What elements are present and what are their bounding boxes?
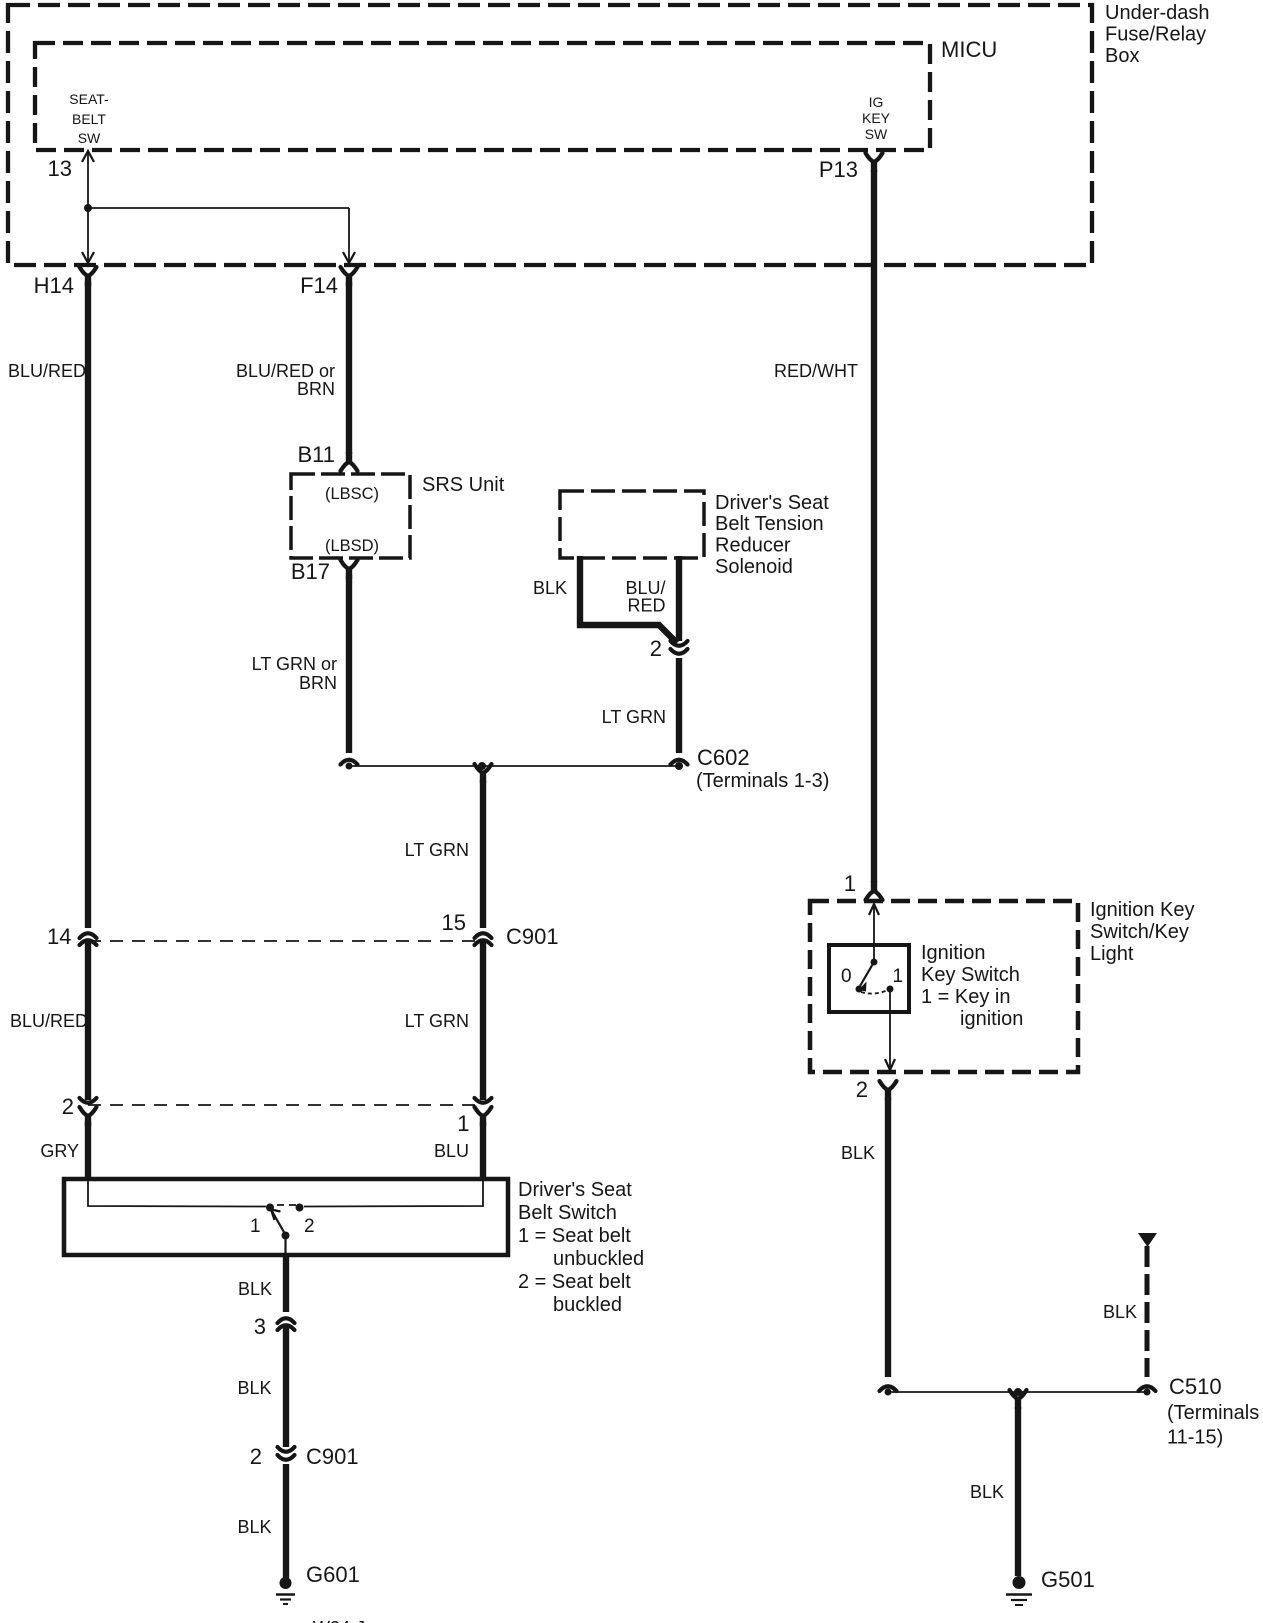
svg-text:2: 2 (856, 1077, 868, 1102)
svg-text:Light: Light (1090, 943, 1134, 965)
svg-text:(Terminals: (Terminals (1167, 1402, 1259, 1424)
svg-text:GRY: GRY (40, 1141, 79, 1161)
svg-text:H14: H14 (34, 273, 74, 298)
svg-text:SW: SW (865, 126, 888, 142)
svg-text:15: 15 (442, 910, 466, 935)
svg-text:(Terminals 1-3): (Terminals 1-3) (696, 770, 829, 792)
svg-text:LT GRN: LT GRN (405, 840, 469, 860)
svg-text:2: 2 (250, 1444, 262, 1469)
svg-text:BRN: BRN (297, 379, 335, 399)
svg-text:(LBSC): (LBSC) (325, 485, 379, 503)
svg-text:C510: C510 (1169, 1374, 1222, 1399)
svg-text:1: 1 (893, 966, 904, 987)
svg-text:Fuse/Relay: Fuse/Relay (1105, 24, 1206, 46)
svg-text:B17: B17 (291, 559, 330, 584)
svg-text:Key Switch: Key Switch (921, 964, 1020, 986)
svg-text:Driver's Seat: Driver's Seat (518, 1179, 632, 1201)
svg-text:G501: G501 (1041, 1567, 1095, 1592)
svg-text:RED: RED (627, 596, 665, 616)
svg-text:14: 14 (47, 924, 71, 949)
svg-text:G601: G601 (306, 1562, 360, 1587)
svg-text:2: 2 (304, 1216, 315, 1237)
svg-text:Driver's Seat: Driver's Seat (715, 492, 829, 514)
svg-text:2 = Seat belt: 2 = Seat belt (518, 1271, 631, 1293)
svg-text:P13: P13 (819, 157, 858, 182)
svg-text:IG: IG (869, 94, 884, 110)
svg-text:SEAT-: SEAT- (69, 91, 109, 107)
svg-text:BELT: BELT (72, 111, 106, 127)
svg-text:1: 1 (457, 1111, 469, 1136)
svg-text:B11: B11 (297, 442, 335, 467)
svg-text:BLU/RED: BLU/RED (8, 361, 86, 381)
svg-text:11-15): 11-15) (1167, 1427, 1223, 1449)
svg-text:unbuckled: unbuckled (553, 1248, 644, 1270)
svg-text:ignition: ignition (960, 1008, 1023, 1030)
svg-text:BLK: BLK (237, 1517, 271, 1537)
svg-text:SW: SW (78, 130, 101, 146)
svg-text:Switch/Key: Switch/Key (1090, 921, 1189, 943)
svg-text:BLU/RED: BLU/RED (10, 1011, 88, 1031)
svg-text:BLK: BLK (533, 578, 567, 598)
svg-text:Box: Box (1105, 45, 1139, 67)
svg-text:BLU/RED or: BLU/RED or (236, 361, 335, 381)
svg-text:3: 3 (254, 1314, 266, 1339)
svg-text:Reducer: Reducer (715, 535, 791, 557)
svg-text:13: 13 (48, 156, 72, 181)
svg-text:buckled: buckled (553, 1294, 622, 1316)
svg-text:RED/WHT: RED/WHT (774, 361, 858, 381)
svg-text:C901: C901 (306, 1444, 359, 1469)
svg-text:BLK: BLK (1103, 1302, 1137, 1322)
svg-text:1: 1 (250, 1216, 261, 1237)
svg-text:LT GRN: LT GRN (602, 707, 666, 727)
svg-text:BLK: BLK (238, 1279, 272, 1299)
svg-text:Solenoid: Solenoid (715, 556, 793, 578)
svg-text:BLK: BLK (970, 1482, 1004, 1502)
svg-text:MICU: MICU (941, 37, 997, 62)
svg-text:F14: F14 (300, 273, 338, 298)
svg-text:2: 2 (650, 636, 662, 661)
svg-text:C602: C602 (697, 745, 750, 770)
svg-text:BLK: BLK (237, 1378, 271, 1398)
svg-text:1: 1 (844, 871, 856, 896)
svg-text:(LBSD): (LBSD) (325, 537, 379, 555)
svg-text:BLK: BLK (841, 1143, 875, 1163)
svg-text:Belt Switch: Belt Switch (518, 1202, 617, 1224)
svg-text:Belt Tension: Belt Tension (715, 513, 824, 535)
svg-text:C901: C901 (506, 924, 559, 949)
svg-text:Ignition Key: Ignition Key (1090, 899, 1195, 921)
svg-text:W04-J: W04-J (313, 1618, 365, 1623)
svg-text:LT GRN: LT GRN (405, 1011, 469, 1031)
svg-text:BLU: BLU (434, 1141, 469, 1161)
svg-text:BRN: BRN (299, 673, 337, 693)
svg-text:KEY: KEY (862, 110, 891, 126)
svg-text:Ignition: Ignition (921, 942, 986, 964)
svg-text:1 = Seat belt: 1 = Seat belt (518, 1225, 631, 1247)
svg-text:SRS Unit: SRS Unit (422, 474, 505, 496)
svg-text:2: 2 (62, 1094, 74, 1119)
svg-text:0: 0 (841, 966, 852, 987)
svg-text:1 = Key in: 1 = Key in (921, 986, 1011, 1008)
svg-text:LT GRN or: LT GRN or (252, 654, 337, 674)
svg-text:Under-dash: Under-dash (1105, 2, 1210, 24)
